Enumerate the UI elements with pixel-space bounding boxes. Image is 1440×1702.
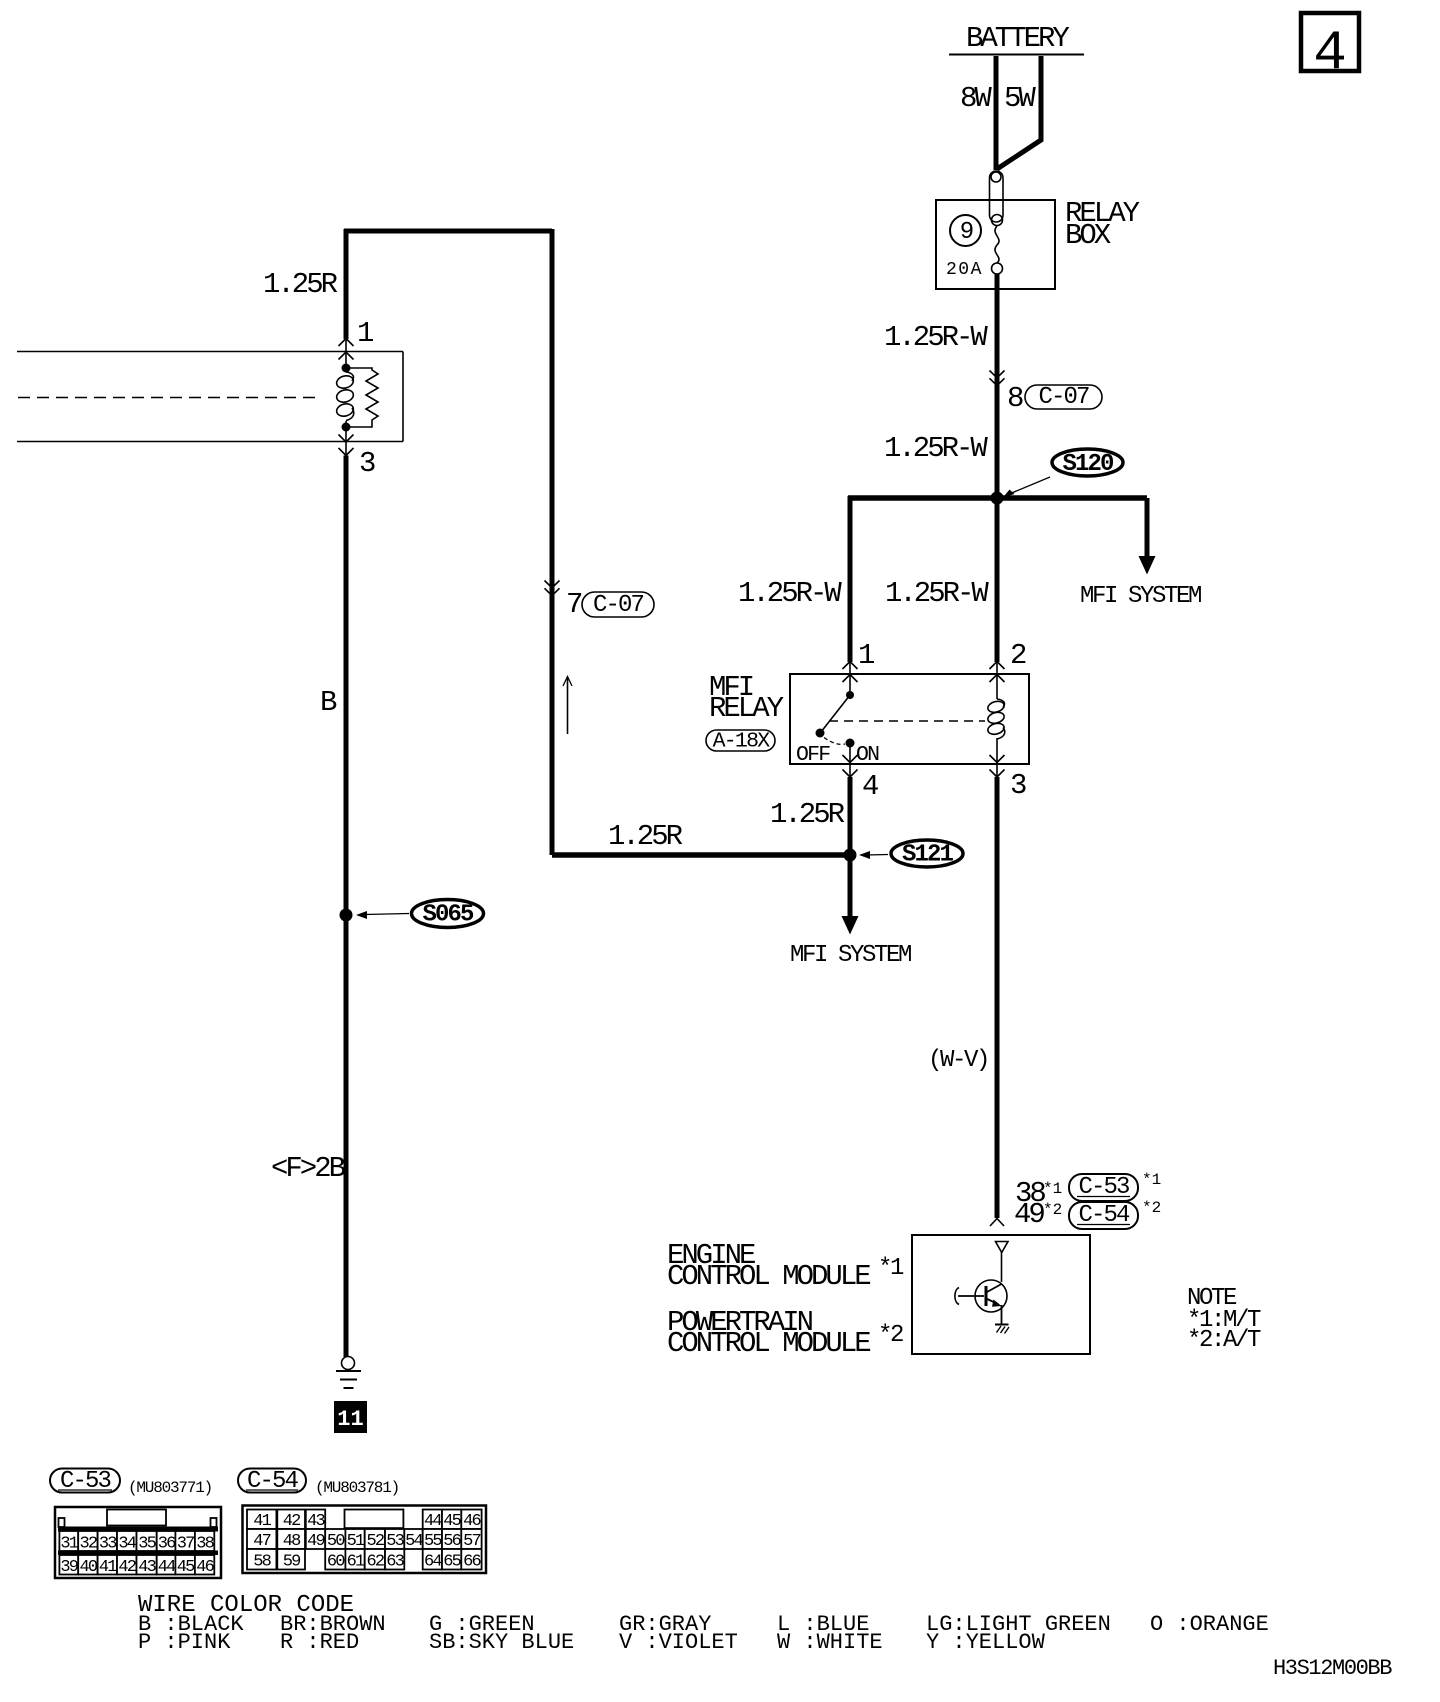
svg-text:61: 61	[347, 1553, 365, 1572]
svg-text:2: 2	[1010, 639, 1026, 672]
svg-text:*1: *1	[1142, 1171, 1161, 1189]
svg-text:C-07: C-07	[593, 592, 644, 619]
svg-text:35: 35	[138, 1535, 156, 1554]
svg-text:8W: 8W	[960, 82, 992, 115]
svg-text:C-07: C-07	[1038, 384, 1089, 411]
svg-text:31: 31	[60, 1535, 78, 1554]
svg-text:P :PINK: P :PINK	[138, 1630, 231, 1655]
svg-text:H3S12M00BB: H3S12M00BB	[1273, 1656, 1392, 1681]
svg-text:4: 4	[862, 770, 878, 803]
svg-text:(W-V): (W-V)	[928, 1047, 988, 1074]
svg-text:33: 33	[99, 1535, 117, 1554]
svg-text:4: 4	[1313, 21, 1347, 85]
svg-text:41: 41	[99, 1558, 117, 1577]
svg-text:ON: ON	[856, 743, 879, 767]
svg-text:(MU803771): (MU803771)	[128, 1479, 212, 1497]
svg-text:1.25R-W: 1.25R-W	[738, 577, 842, 610]
svg-text:32: 32	[79, 1535, 96, 1554]
svg-text:7: 7	[566, 588, 582, 621]
svg-text:1.25R-W: 1.25R-W	[884, 432, 988, 465]
svg-text:BATTERY: BATTERY	[966, 22, 1069, 55]
svg-text:65: 65	[443, 1553, 461, 1572]
svg-text:SB:SKY BLUE: SB:SKY BLUE	[429, 1630, 574, 1655]
svg-text:W :WHITE: W :WHITE	[777, 1630, 883, 1655]
svg-text:66: 66	[463, 1553, 481, 1572]
svg-text:64: 64	[424, 1553, 442, 1572]
svg-text:*2: *2	[878, 1322, 903, 1349]
svg-text:1.25R: 1.25R	[770, 798, 845, 831]
svg-text:*2:A/T: *2:A/T	[1187, 1327, 1261, 1354]
svg-text:Y :YELLOW: Y :YELLOW	[926, 1630, 1046, 1655]
svg-text:39: 39	[60, 1558, 78, 1577]
svg-text:59: 59	[283, 1553, 301, 1572]
svg-text:1.25R-W: 1.25R-W	[884, 321, 988, 354]
svg-text:C-54: C-54	[247, 1468, 299, 1495]
svg-text:BOX: BOX	[1065, 219, 1111, 252]
svg-text:S065: S065	[422, 902, 474, 929]
svg-text:*2: *2	[1142, 1199, 1161, 1217]
svg-text:1: 1	[357, 317, 373, 350]
svg-text:*1: *1	[1043, 1180, 1062, 1198]
svg-text:63: 63	[386, 1553, 404, 1572]
svg-text:MFI SYSTEM: MFI SYSTEM	[1080, 583, 1201, 610]
svg-text:1.25R: 1.25R	[263, 268, 338, 301]
svg-text:60: 60	[327, 1553, 345, 1572]
svg-text:OFF: OFF	[796, 743, 830, 767]
svg-text:MFI SYSTEM: MFI SYSTEM	[790, 942, 911, 969]
svg-text:S120: S120	[1062, 451, 1114, 478]
svg-text:40: 40	[79, 1558, 97, 1577]
svg-text:C-54: C-54	[1078, 1202, 1130, 1229]
svg-text:58: 58	[253, 1553, 271, 1572]
svg-text:R :RED: R :RED	[280, 1630, 359, 1655]
svg-text:RELAY: RELAY	[709, 692, 784, 725]
svg-text:62: 62	[366, 1553, 383, 1572]
svg-text:3: 3	[1010, 769, 1026, 802]
svg-text:(MU803781): (MU803781)	[315, 1479, 399, 1497]
svg-text:A-18X: A-18X	[713, 730, 771, 754]
svg-text:C-53: C-53	[1078, 1174, 1129, 1201]
svg-text:CONTROL MODULE: CONTROL MODULE	[667, 1327, 870, 1360]
svg-text:CONTROL MODULE: CONTROL MODULE	[667, 1260, 870, 1293]
svg-text:49: 49	[1014, 1198, 1044, 1231]
svg-text:45: 45	[177, 1558, 195, 1577]
svg-text:37: 37	[177, 1535, 194, 1554]
svg-text:34: 34	[118, 1535, 136, 1554]
svg-text:36: 36	[158, 1535, 176, 1554]
svg-text:1.25R-W: 1.25R-W	[885, 577, 989, 610]
svg-text:46: 46	[196, 1558, 214, 1577]
svg-text:54: 54	[405, 1532, 423, 1551]
svg-text:9: 9	[960, 219, 973, 246]
svg-text:1.25R: 1.25R	[608, 820, 683, 853]
svg-text:5W: 5W	[1004, 82, 1036, 115]
svg-text:3: 3	[359, 447, 375, 480]
svg-text:42: 42	[118, 1558, 135, 1577]
svg-text:O :ORANGE: O :ORANGE	[1150, 1612, 1269, 1637]
svg-text:S121: S121	[902, 842, 954, 869]
svg-text:11: 11	[337, 1407, 363, 1432]
svg-text:38: 38	[196, 1535, 214, 1554]
svg-text:1: 1	[858, 639, 874, 672]
svg-text:44: 44	[158, 1558, 176, 1577]
svg-text:*2: *2	[1043, 1201, 1062, 1219]
svg-text:*1: *1	[878, 1255, 904, 1282]
svg-text:8: 8	[1007, 382, 1023, 415]
svg-text:C-53: C-53	[60, 1468, 111, 1495]
svg-text:49: 49	[307, 1532, 325, 1551]
svg-text:<F>2B: <F>2B	[271, 1152, 346, 1185]
svg-text:V :VIOLET: V :VIOLET	[619, 1630, 738, 1655]
svg-text:43: 43	[138, 1558, 156, 1577]
svg-text:20A: 20A	[946, 260, 983, 280]
